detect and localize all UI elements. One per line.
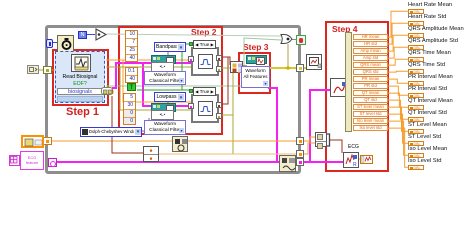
filter icon xyxy=(198,54,213,69)
wire magenta passthrough down xyxy=(268,88,277,162)
indicator label Heart Rate Mean xyxy=(408,2,452,8)
unbundle strip xyxy=(345,32,352,132)
wire feature 6 to indicator xyxy=(388,70,408,73)
tunnel olive left xyxy=(43,66,52,74)
step 2 label xyxy=(191,27,217,37)
label Waveform Classical Filter 1 xyxy=(144,71,186,85)
case selector hook xyxy=(189,89,193,93)
bundle node right xyxy=(315,132,327,147)
ECG chart label xyxy=(348,144,359,150)
label Waveform All Features xyxy=(241,66,270,88)
wire feature 1 to indicator xyxy=(388,11,408,37)
step 4 frame xyxy=(325,21,389,172)
feature stats VI icon xyxy=(330,78,347,97)
wire merge to all-features xyxy=(243,65,247,67)
boolean true constant xyxy=(127,83,136,91)
all features VI header xyxy=(246,55,267,64)
indicator label QRS Time Std xyxy=(408,62,445,68)
wire feature 12 to indicator xyxy=(388,114,408,143)
case tunnels xyxy=(216,55,222,61)
array constant filter spec 2 xyxy=(125,67,138,83)
wire orange bandspec to case2 xyxy=(123,60,191,102)
wire case2 filtered riser xyxy=(219,57,228,104)
indicator terminal QT Interval Std xyxy=(408,117,424,122)
biosignal class constant xyxy=(20,151,44,170)
unbundle row QT std xyxy=(353,97,388,103)
wire orange bottom run xyxy=(48,140,300,142)
wire olive to case1 xyxy=(106,66,191,68)
wire boolean T to case2 selector xyxy=(182,89,190,91)
indicator label PR Interval Mean xyxy=(408,74,453,80)
file refnum constant xyxy=(21,135,44,148)
wire orange to bundle2 xyxy=(300,143,315,154)
wire feature 14 to indicator xyxy=(388,128,408,167)
indicator terminal PR Interval Std xyxy=(408,93,424,98)
enum constant Bandpass xyxy=(154,42,186,52)
collector VI icon xyxy=(306,54,322,70)
case selector hook xyxy=(189,42,193,46)
tunnel magenta left xyxy=(48,158,57,167)
indicator label Iso Level Mean xyxy=(408,146,447,152)
wire magenta bottom run xyxy=(52,161,279,163)
express VI Read Biosignal xyxy=(55,51,105,103)
wire feature 2 to indicator xyxy=(388,23,408,44)
indicator label QRS Amplitude Std xyxy=(408,38,458,44)
Read Biosignal biosignals row xyxy=(57,88,103,95)
indicator terminal QRS Amplitude Std xyxy=(408,45,424,50)
ECG chart indicator xyxy=(360,155,373,164)
loop count terminal N xyxy=(78,31,87,39)
unbundle row Amp mean xyxy=(353,48,388,54)
unbundle row QRS std xyxy=(353,69,388,75)
while loop frame xyxy=(45,25,301,174)
Read Biosignal icon xyxy=(71,54,91,72)
step 3 frame xyxy=(238,52,271,94)
indicator terminal Iso Level Std xyxy=(408,165,424,170)
case tunnels xyxy=(216,102,222,108)
wire magenta branch to case2 xyxy=(143,63,190,106)
wire window enum xyxy=(141,118,149,131)
wait timer function xyxy=(57,35,74,52)
unbundle row QRS mean xyxy=(353,62,388,68)
step 1 frame xyxy=(52,49,109,106)
wire error down from read xyxy=(112,96,143,153)
step 2 frame xyxy=(118,26,223,135)
wire EOF boolean xyxy=(106,38,281,86)
increment node xyxy=(95,28,108,41)
indicator label ST Level Mean xyxy=(408,122,447,128)
case structure 2 xyxy=(191,94,219,123)
wire extractor to unbundle xyxy=(347,91,351,93)
step 1 label xyxy=(66,106,99,118)
wire chart vi to chart xyxy=(357,158,360,160)
wire feature 8 to indicator xyxy=(388,86,408,95)
constant sample rate xyxy=(27,65,39,74)
wire case2 olive riser xyxy=(219,114,233,116)
label Waveform Classical Filter 2 xyxy=(144,120,186,135)
indicator terminal QT Interval Mean xyxy=(408,105,424,110)
or gate xyxy=(280,33,294,45)
constant wait-ms value xyxy=(46,39,53,48)
wire features yellow xyxy=(267,67,306,69)
junction features xyxy=(286,66,290,70)
wire bandpass enum xyxy=(167,52,169,57)
wire magenta riser to extractor xyxy=(310,90,330,162)
loop condition terminal xyxy=(296,35,306,45)
wire feature 10 to indicator xyxy=(388,100,408,119)
wire iteration to or-gate xyxy=(107,34,281,36)
unbundle row Amp std xyxy=(353,55,388,61)
indicator terminal PR Interval Mean xyxy=(408,81,424,86)
indicator terminal QRS Time Std xyxy=(408,69,424,74)
class constant icon xyxy=(9,155,20,166)
indicator terminal QRS Amplitude Mean xyxy=(408,33,424,38)
svg-text:R: R xyxy=(353,162,357,167)
wire olive down run xyxy=(232,68,234,154)
wire lowpass enum xyxy=(167,102,169,106)
wire feature 9 to indicator xyxy=(388,93,408,107)
indicator terminal ST Level Std xyxy=(408,141,424,146)
indicator terminal ST Level Mean xyxy=(408,129,424,134)
timing node xyxy=(172,136,188,152)
filter icon xyxy=(198,101,213,116)
chart helper VI icon xyxy=(343,152,359,168)
wire or to terminal xyxy=(292,39,296,40)
unbundle row Iso level std xyxy=(353,125,388,131)
unbundle row ST level std xyxy=(353,111,388,117)
unbundle row HR std xyxy=(353,41,388,47)
wire writer out magenta xyxy=(295,161,343,163)
indicator terminal QRS Time Mean xyxy=(408,57,424,62)
step 3 label xyxy=(243,42,269,52)
indicator label Heart Rate Std xyxy=(408,14,446,20)
enum constant window xyxy=(80,127,142,137)
unbundle row ST level mean xyxy=(353,104,388,110)
enum constant Lowpass xyxy=(154,92,186,102)
merge signals node xyxy=(230,61,243,73)
case selector True xyxy=(193,40,216,49)
filter VI 2 icon xyxy=(151,103,174,119)
wire N to increment xyxy=(87,34,95,35)
wire feature 3 to indicator xyxy=(388,35,408,51)
wire feature 7 to indicator xyxy=(388,79,408,83)
indicator label QRS Time Mean xyxy=(408,50,451,56)
wire orange to bundle xyxy=(300,137,315,141)
unbundle row PR std xyxy=(353,83,388,89)
wire biosignals magenta riser xyxy=(112,63,192,88)
wire wait const xyxy=(53,42,57,43)
bundle bracket xyxy=(326,133,331,147)
wire orange bandspec to case1 xyxy=(106,59,191,61)
indicator label ST Level Std xyxy=(408,134,441,140)
wire orange second run xyxy=(159,153,300,155)
indicator label Iso Level Std xyxy=(408,158,442,164)
indicator terminal Heart Rate Mean xyxy=(408,9,424,14)
case structure 1 xyxy=(191,47,219,76)
junction biosignal output xyxy=(110,90,114,94)
signal writer node xyxy=(279,155,296,172)
wire feature 13 to indicator xyxy=(388,121,408,155)
wire feature 4 to indicator xyxy=(388,47,408,58)
wire feature 5 to indicator xyxy=(388,59,408,65)
array constant lowpass spec xyxy=(123,93,136,125)
biosignal convert node xyxy=(101,87,113,95)
unbundle node bottom xyxy=(143,146,159,162)
wire boolean T to case selectors xyxy=(137,44,192,90)
wire case1 olive out xyxy=(219,67,233,69)
unbundle row PR mean xyxy=(353,76,388,82)
wire olive to case2 xyxy=(120,67,191,110)
wire olive gate drop xyxy=(287,44,289,68)
unbundle row QT mean xyxy=(353,90,388,96)
wire sample-rate olive into Read Biosignal xyxy=(38,69,58,71)
Read Biosignal name xyxy=(55,74,105,80)
array constant bandpass spec xyxy=(125,30,138,62)
tunnel yellow right xyxy=(296,64,304,72)
wire feature 11 to indicator xyxy=(388,107,408,131)
Read Biosignal extra row xyxy=(57,96,103,102)
indicator terminal Iso Level Mean xyxy=(408,153,424,158)
indicator label QT Interval Std xyxy=(408,110,447,116)
indicator label PR Interval Std xyxy=(408,86,447,92)
tunnel orange left xyxy=(43,137,52,145)
tunnel magenta right xyxy=(296,158,304,166)
filter VI 1 icon xyxy=(151,55,174,71)
indicator label QRS Amplitude Mean xyxy=(408,26,464,32)
wire bundle to chart vi xyxy=(329,140,342,153)
tunnel orange right 2 xyxy=(296,150,304,158)
indicator label QT Interval Mean xyxy=(408,98,453,104)
unbundle row HR mean xyxy=(353,34,388,40)
Read Biosignal EOF row xyxy=(58,81,102,87)
step 4 label xyxy=(332,24,358,34)
case selector True xyxy=(193,87,216,96)
indicator terminal Heart Rate Std xyxy=(408,21,424,26)
wire case1 filtered out xyxy=(219,57,230,65)
unbundle row Iso level mean xyxy=(353,118,388,124)
tunnel orange right 1 xyxy=(296,137,304,145)
